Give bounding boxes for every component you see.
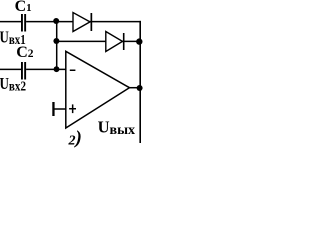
junction dot on right rail at diode VD2 [136,38,142,44]
capacitor C1 [21,14,26,32]
svg-text:Uвых: Uвых [98,118,135,138]
capacitor C2 [21,62,26,80]
wire node B through diode VD2 to right rail [57,40,141,42]
common terminal bar [52,102,54,116]
wire from C2 to op-amp inverting input [26,68,66,70]
right rail wire [139,21,141,143]
node B junction dot [53,38,59,44]
wire node A to node C vertical [56,22,58,70]
wire op-amp output to right rail [130,87,141,89]
op-amp plus sign [69,104,76,113]
wire input 1 left segment [0,21,21,23]
output node junction dot [137,85,143,91]
node C junction dot [54,66,60,72]
svg-text:C2: C2 [16,44,34,61]
op-amp minus sign [70,70,76,72]
node A junction dot [53,18,59,24]
wire op-amp non-inverting input stub [54,108,66,110]
svg-text:2): 2) [68,128,82,149]
wire from C1 through diode VD1 to right rail [26,21,141,23]
svg-text:C1: C1 [15,0,32,15]
wire input 2 left segment [0,68,21,70]
diode VD2 [106,32,125,52]
diode VD1 [73,13,92,32]
op-amp U1 triangle [66,51,130,128]
